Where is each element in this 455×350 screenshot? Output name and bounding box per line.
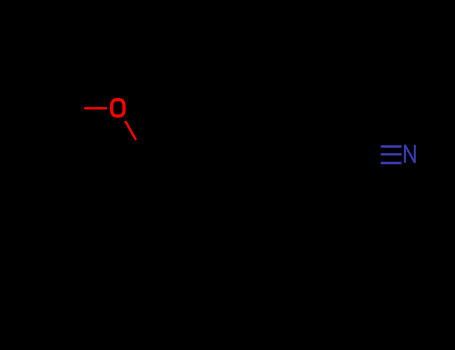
- bond CH3-O (red half near O): [84, 107, 107, 109]
- triple bond C#N (blue part near N): [381, 147, 402, 164]
- atom N (nitrile nitrogen): [405, 145, 415, 163]
- atom O (ether oxygen): [112, 100, 124, 116]
- bond O-C(ring) (red half near O): [125, 121, 136, 140]
